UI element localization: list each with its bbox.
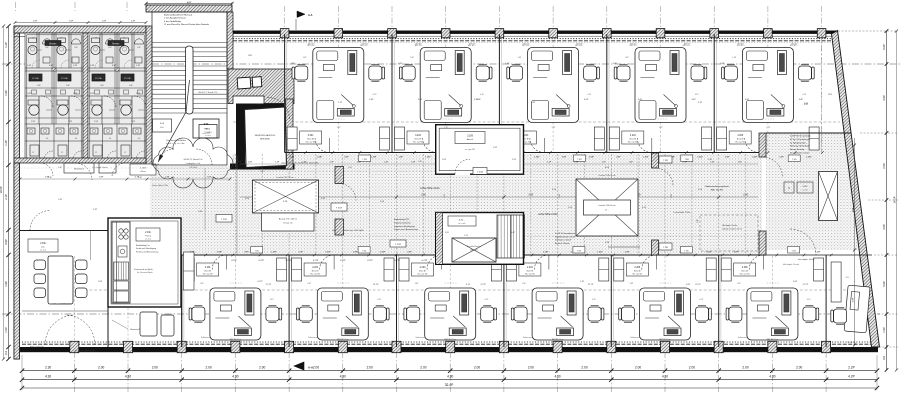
svg-text:1.2P: 1.2P	[4, 42, 8, 48]
svg-text:Deckgl. Üb.: Deckgl. Üb.	[283, 222, 293, 225]
svg-text:1.5P: 1.5P	[207, 177, 212, 179]
right dimension column outer	[896, 31, 898, 370]
svg-text:1.6P: 1.6P	[574, 162, 579, 164]
office U5 divider wall	[713, 34, 715, 153]
core lower crossed box	[452, 238, 496, 262]
revision cloud	[153, 138, 233, 188]
svg-text:1.6P: 1.6P	[90, 93, 95, 95]
WC group at x=25	[25, 33, 83, 160]
stair lower label boxes	[153, 119, 172, 132]
south facade piers	[70, 341, 79, 352]
WC lower cells	[25, 124, 83, 160]
office U4 chair left	[617, 66, 630, 80]
svg-text:4.30: 4.30	[447, 375, 453, 379]
svg-text:0.8P: 0.8P	[353, 252, 358, 254]
svg-text:2.2…: 2.2…	[846, 277, 851, 279]
svg-text:Bestück. Klemm.: Bestück. Klemm.	[555, 242, 570, 245]
office L5 desk island	[640, 288, 691, 340]
office L1 wardrobe left	[277, 258, 287, 281]
svg-text:3.202: 3.202	[415, 135, 421, 137]
svg-text:0.8P: 0.8P	[625, 252, 630, 254]
svg-text:1.9P: 1.9P	[33, 20, 38, 22]
lobby door arcs from WC	[75, 163, 92, 180]
window line south (dashed)	[22, 343, 874, 345]
svg-text:BRT 86 / D m: BRT 86 / D m	[230, 339, 242, 341]
WC fixtures (toilets)	[29, 38, 37, 43]
office U2 wardrobe	[395, 127, 405, 150]
svg-text:CPU: CPU	[248, 55, 253, 57]
svg-text:x,x m2: x,x m2	[802, 190, 807, 192]
office U5 chair right	[798, 66, 811, 80]
svg-text:4.30: 4.30	[769, 375, 775, 379]
office L4 wardrobe left	[599, 258, 609, 281]
svg-text:1.34P: 1.34P	[706, 252, 712, 254]
svg-text:BRT BT/ .: BRT BT/ .	[630, 44, 638, 46]
svg-text:0.8P: 0.8P	[344, 156, 349, 158]
svg-text:1.6P: 1.6P	[27, 93, 32, 95]
svg-text:1.4P: 1.4P	[27, 65, 32, 67]
svg-text:2.01P: 2.01P	[802, 186, 808, 188]
corridor floor hatch (main west)	[232, 154, 436, 255]
svg-text:Bodenmarkierungsband: Bodenmarkierungsband	[705, 185, 729, 188]
office U4 door swing	[637, 138, 652, 153]
WC lower cells	[88, 124, 146, 160]
svg-text:1.34P: 1.34P	[380, 252, 386, 254]
office L6 wardrobe	[721, 258, 731, 281]
svg-text:xx, nym M2: xx, nym M2	[465, 149, 475, 151]
svg-text:Wa, nyz M2: Wa, nyz M2	[735, 141, 745, 143]
svg-text:0.6: 0.6	[138, 138, 140, 140]
office L4 chair left	[514, 307, 527, 321]
svg-text:Wa, nyz M2: Wa, nyz M2	[418, 273, 428, 275]
office U4 wardrobe	[609, 127, 619, 150]
svg-text:2.205: 2.205	[634, 267, 640, 269]
WC mid hatch wall	[52, 68, 56, 71]
svg-text:2.00: 2.00	[152, 366, 158, 370]
svg-text:2.00: 2.00	[205, 366, 211, 370]
svg-text:1.4P: 1.4P	[275, 162, 280, 164]
svg-text:Fa. Keramid Spüle: Fa. Keramid Spüle	[137, 271, 153, 274]
svg-text:1.34P: 1.34P	[216, 252, 222, 254]
svg-text:F 1.3k: F 1.3k	[124, 78, 131, 80]
svg-text:Landeplatz n. Lift: Landeplatz n. Lift	[186, 162, 201, 165]
office L5 chair left	[622, 307, 635, 321]
office U3 wardrobe left	[594, 127, 604, 150]
office L6 chair left	[729, 307, 742, 321]
wall: stair block east	[227, 12, 233, 69]
svg-text:4.30: 4.30	[340, 375, 346, 379]
svg-text:Büro Bt: Büro Bt	[415, 137, 422, 140]
corridor north wall	[285, 152, 436, 154]
meeting room door arcs	[45, 315, 75, 345]
svg-text:2.00: 2.00	[689, 366, 695, 370]
skylight box west lower	[262, 213, 315, 231]
svg-text:Büro Bt: Büro Bt	[737, 137, 744, 140]
office L4 room label	[519, 263, 541, 276]
office L2 door swing	[320, 255, 335, 270]
wall: stair block north (raised)	[146, 5, 232, 12]
svg-text:Lichte Höhe 3.10m: Lichte Höhe 3.10m	[420, 187, 439, 190]
corridor floor hatch (at core)	[436, 174, 524, 212]
svg-text:4.30: 4.30	[45, 375, 51, 379]
svg-text:1.6P: 1.6P	[738, 162, 743, 164]
svg-text:1.4P: 1.4P	[547, 162, 552, 164]
svg-text:1.4P: 1.4P	[4, 140, 8, 146]
corridor south wall	[182, 254, 436, 256]
svg-text:21.7P: 21.7P	[373, 284, 379, 286]
office L3 chair right	[481, 307, 494, 321]
svg-text:3.204: 3.204	[630, 135, 636, 137]
svg-text:Auszug 170 x 140 cm: Auszug 170 x 140 cm	[279, 218, 298, 221]
east room door swing	[790, 229, 816, 255]
svg-text:1.5P: 1.5P	[31, 121, 36, 123]
elevator label box	[199, 125, 217, 139]
svg-text:xx, m2: xx, m2	[145, 239, 151, 241]
office U2 chair left	[402, 66, 415, 80]
svg-text:3.6P: 3.6P	[369, 99, 374, 101]
svg-text:Aufzucht: Aufzucht	[470, 249, 478, 252]
svg-text:Büro Bt: Büro Bt	[204, 269, 211, 272]
corridor horizontal dashed lines	[232, 170, 435, 172]
svg-text:1.6P: 1.6P	[248, 162, 253, 164]
svg-text:5.0P: 5.0P	[852, 297, 854, 302]
svg-text:2.00: 2.00	[98, 366, 104, 370]
stair treads	[152, 43, 227, 114]
svg-text:5.0P: 5.0P	[882, 44, 886, 50]
svg-text:1.34P: 1.34P	[597, 252, 603, 254]
WC door arcs upper	[95, 60, 103, 68]
svg-text:1.6P: 1.6P	[629, 162, 634, 164]
svg-text:11 mm Fliess/Fa. Massivl Fusbo: 11 mm Fliess/Fa. Massivl Fusbo Here Natu…	[164, 23, 210, 26]
pantry label	[136, 228, 160, 241]
section marker A-A top	[297, 11, 305, 18]
svg-text:BRT 86 / D m: BRT 86 / D m	[552, 339, 564, 341]
office U5 room label	[729, 131, 751, 144]
svg-text:Sollwertmel: Sollwertmel	[523, 336, 533, 339]
svg-text:1.5P: 1.5P	[512, 159, 517, 161]
office L3 divider wall	[396, 255, 398, 347]
svg-text:1.5P: 1.5P	[882, 327, 886, 333]
svg-text:berg. Montierf. entspr.: berg. Montierf. entspr.	[790, 152, 810, 155]
corridor door wall at x=338	[335, 167, 344, 184]
skylight box east (crossed)	[576, 179, 638, 236]
svg-text:1.4P: 1.4P	[58, 199, 63, 201]
kitchen stove circles	[119, 229, 123, 233]
office L2 wardrobe left	[384, 258, 394, 281]
svg-text:1.1P: 1.1P	[580, 281, 585, 283]
svg-text:0.8P: 0.8P	[616, 156, 621, 158]
office L3 room label	[412, 263, 434, 276]
svg-text:0.8P: 0.8P	[725, 156, 730, 158]
svg-text:2.00: 2.00	[528, 366, 534, 370]
svg-text:Wa, nyz M2: Wa, nyz M2	[413, 141, 423, 143]
core lower stair treads	[498, 215, 523, 258]
svg-text:1.4P: 1.4P	[710, 162, 715, 164]
svg-text:Wa, nyz M2: Wa, nyz M2	[628, 141, 638, 143]
staircase outline	[152, 12, 227, 165]
svg-text:BRT BT/ .: BRT BT/ .	[362, 44, 370, 46]
svg-text:Sollwertmel: Sollwertmel	[416, 336, 426, 339]
svg-text:Wa, nyz M2: Wa, nyz M2	[740, 273, 750, 275]
svg-text:1.2: 1.2	[95, 152, 97, 154]
svg-text:4.30: 4.30	[125, 375, 131, 379]
svg-text:0.8P: 0.8P	[4, 239, 8, 245]
svg-text:0.77P: 0.77P	[257, 281, 263, 283]
office U4 desk island	[635, 48, 686, 123]
core lower room (stair/shaft)	[436, 213, 524, 265]
svg-text:0.8P: 0.8P	[399, 156, 404, 158]
svg-text:2.202: 2.202	[312, 267, 318, 269]
svg-text:1.34P: 1.34P	[806, 156, 812, 158]
kitchen sink	[118, 246, 127, 257]
lobby dim chain	[20, 178, 230, 180]
dimension row 3 (total)	[22, 387, 877, 389]
office U3 chair left	[510, 66, 523, 80]
svg-text:2.00: 2.00	[635, 366, 641, 370]
office U5 chair left	[724, 66, 737, 80]
section marker A-A bottom	[294, 362, 304, 370]
svg-text:1.5P: 1.5P	[102, 20, 107, 22]
svg-text:0.8: 0.8	[882, 356, 886, 360]
office L6 divider wall	[718, 255, 720, 347]
svg-text:Lärche Höhe 2.20e: Lärche Höhe 2.20e	[152, 184, 168, 187]
svg-text:T 3/0: T 3/0	[577, 250, 581, 252]
svg-text:2.00: 2.00	[796, 366, 802, 370]
WC mid fixtures	[92, 105, 102, 115]
svg-text:1.6P: 1.6P	[411, 162, 416, 164]
svg-text:2.2P: 2.2P	[848, 366, 855, 370]
svg-text:Alt abgeh. Decke,: Alt abgeh. Decke,	[723, 224, 738, 227]
office L6 room label	[734, 263, 756, 276]
WC extra tiny marks	[32, 90, 37, 94]
svg-text:1.9P: 1.9P	[45, 177, 50, 179]
svg-text:1.5P: 1.5P	[442, 159, 447, 161]
svg-text:BT flg OG-Verteilersch.: BT flg OG-Verteilersch.	[790, 138, 811, 141]
svg-text:2.00: 2.00	[743, 194, 748, 197]
meeting chairs right	[76, 260, 88, 270]
office U3 door swing	[530, 138, 545, 153]
svg-text:1.3: 1.3	[32, 38, 34, 40]
svg-text:0.8P: 0.8P	[779, 156, 784, 158]
office U2 room label	[407, 131, 429, 144]
svg-text:Wa, nyz M2: Wa, nyz M2	[203, 273, 213, 275]
svg-text:1.6P: 1.6P	[838, 74, 843, 76]
office U2 door swing	[423, 138, 438, 153]
svg-text:0.77P: 0.77P	[286, 260, 292, 262]
svg-text:BRT 86 / D m: BRT 86 / D m	[659, 339, 671, 341]
office U3 divider wall	[498, 34, 500, 153]
svg-text:1.4P: 1.4P	[136, 65, 141, 67]
svg-text:Sollwertmel: Sollwertmel	[201, 336, 211, 339]
svg-text:T 3/0: T 3/0	[362, 250, 366, 252]
svg-text:Fortsetzend Decke: Fortsetzend Decke	[394, 221, 412, 224]
office L2 wardrobe	[292, 258, 302, 281]
svg-text:LA/1.02/T2.7 BRT.TB (7) m: LA/1.02/T2.7 BRT.TB (7) m	[74, 350, 97, 353]
door swing at elevator	[268, 98, 290, 120]
svg-text:2.00: 2.00	[420, 366, 426, 370]
svg-text:1.6P: 1.6P	[290, 63, 295, 65]
svg-text:1.6P: 1.6P	[98, 281, 103, 283]
svg-text:1.2: 1.2	[61, 152, 63, 154]
svg-text:BRT BT/ .: BRT BT/ .	[308, 44, 316, 46]
WC header label	[45, 41, 61, 46]
svg-text:21.7P: 21.7P	[803, 284, 809, 286]
svg-text:4.2P: 4.2P	[848, 375, 855, 379]
svg-text:1.6P: 1.6P	[357, 162, 362, 164]
wall: west exterior	[14, 26, 20, 359]
svg-text:1.9P: 1.9P	[4, 90, 8, 96]
svg-text:Fortsetzen Bestätigung: Fortsetzen Bestätigung	[394, 225, 415, 228]
office L5 wardrobe left	[706, 258, 716, 281]
svg-text:2.00: 2.00	[313, 366, 319, 370]
office U1 chair left	[295, 66, 308, 80]
office L2 chair right	[373, 307, 386, 321]
svg-text:1.5P: 1.5P	[68, 121, 73, 123]
svg-text:2.00: 2.00	[367, 366, 373, 370]
pantry room	[181, 255, 183, 347]
wall: south exterior (main)	[20, 347, 878, 352]
svg-text:T 3/R: T 3/R	[685, 159, 690, 161]
svg-text:BRT 86 / D m: BRT 86 / D m	[445, 339, 457, 341]
svg-text:1.2P: 1.2P	[131, 20, 136, 22]
svg-text:1.34P: 1.34P	[371, 156, 377, 158]
svg-text:4 mm Stab/Belag: 4 mm Stab/Belag	[164, 20, 182, 23]
office L2 divider wall	[288, 255, 290, 347]
office L3 chair left	[407, 307, 420, 321]
office U5 door swing	[745, 138, 760, 153]
svg-text:3.201: 3.201	[308, 135, 314, 137]
svg-text:xx, m2: xx, m2	[40, 250, 46, 252]
wall: WC block south	[14, 158, 146, 163]
office U3 desk island	[528, 48, 579, 123]
svg-text:1.6P: 1.6P	[793, 281, 798, 283]
WC group at x=88	[88, 33, 146, 160]
svg-text:T 3/R: T 3/R	[663, 247, 668, 249]
svg-text:Leuchte 210x 90 cm: Leuchte 210x 90 cm	[598, 204, 615, 207]
svg-text:21.7P: 21.7P	[695, 284, 701, 286]
svg-text:Sollwertmel: Sollwertmel	[738, 336, 748, 339]
elevator window openings	[237, 76, 262, 89]
svg-text:1.34P: 1.34P	[643, 156, 649, 158]
svg-text:2.201: 2.201	[205, 267, 211, 269]
WC double wall lines	[88, 33, 146, 158]
WC extra tiny marks	[95, 90, 100, 94]
svg-text:RAL 750 RG: RAL 750 RG	[711, 188, 724, 191]
office L6 chair right	[803, 307, 816, 321]
svg-text:32.4P: 32.4P	[445, 383, 454, 387]
svg-text:3.209: 3.209	[467, 136, 473, 138]
svg-text:Lab.: Lab.	[41, 247, 45, 249]
office L3 door swing	[427, 255, 442, 270]
svg-text:Büro Bt: Büro Bt	[741, 269, 748, 272]
WC fixtures (toilets)	[92, 38, 100, 43]
north facade piers	[280, 29, 289, 38]
wall: north exterior (main)	[232, 31, 837, 34]
corridor axis verticals	[235, 154, 745, 254]
meeting table	[48, 256, 73, 304]
svg-text:3.205: 3.205	[737, 135, 743, 137]
svg-text:F 1.3k: F 1.3k	[95, 78, 102, 80]
svg-text:T 3.1R: T 3.1R	[395, 244, 402, 246]
svg-text:0.4: 0.4	[4, 351, 8, 355]
svg-text:T 3.1R: T 3.1R	[477, 171, 484, 173]
svg-text:17.2cm 0x0P/8/0x0/4.0: 17.2cm 0x0P/8/0x0/4.0	[52, 304, 71, 306]
svg-text:2.00: 2.00	[348, 167, 352, 169]
svg-text:1.5P: 1.5P	[69, 20, 74, 22]
svg-text:1.2: 1.2	[124, 152, 126, 154]
svg-text:BRT BT/ .: BRT BT/ .	[469, 44, 477, 46]
svg-text:2.206: 2.206	[742, 267, 748, 269]
office U3 chair right	[584, 66, 597, 80]
office L5 room label	[626, 263, 648, 276]
svg-text:Wartung, Klemmleiste: Wartung, Klemmleiste	[790, 145, 810, 148]
svg-text:xx, n m2: xx, n m2	[458, 223, 465, 225]
dashed vent rect	[700, 215, 758, 251]
corridor mid dimension chain	[240, 196, 758, 198]
svg-text:Bodenbelag PVC: Bodenbelag PVC	[394, 219, 410, 221]
soffit dashed line upper offices	[233, 121, 840, 123]
svg-text:BRT BT/ .: BRT BT/ .	[684, 44, 692, 46]
office L1 desk island	[210, 288, 261, 340]
svg-text:T 3/R: T 3/R	[792, 159, 797, 161]
WC sinks	[90, 128, 98, 134]
svg-text:Sollwertmel: Sollwertmel	[308, 336, 318, 339]
meeting room interior line	[90, 231, 92, 261]
svg-text:1.8P: 1.8P	[99, 177, 104, 179]
svg-text:0.8P: 0.8P	[112, 65, 117, 67]
svg-text:1.34P: 1.34P	[752, 156, 758, 158]
svg-text:Wa, nyz M2: Wa, nyz M2	[310, 273, 320, 275]
svg-text:Lüftung ca. 4-fach: Lüftung ca. 4-fach	[555, 239, 571, 242]
office L2 desk island	[317, 288, 368, 340]
svg-text:Wa, nyz M2: Wa, nyz M2	[306, 141, 316, 143]
office L6 desk island	[747, 288, 798, 340]
meeting room walls	[20, 230, 109, 232]
right dim connector lines	[838, 30, 898, 32]
svg-text:1.3: 1.3	[60, 38, 62, 40]
svg-text:T 3.1R: T 3.1R	[336, 208, 343, 210]
svg-text:1.6P: 1.6P	[398, 63, 403, 65]
svg-text:GS-46 T2, Brand 3 G: GS-46 T2, Brand 3 G	[184, 159, 203, 161]
svg-text:1.34P: 1.34P	[697, 156, 703, 158]
stair central stringer	[186, 46, 194, 114]
upper office last divider axis	[821, 34, 823, 153]
svg-text:1.0P: 1.0P	[4, 327, 8, 333]
svg-text:Detail s. Zg. nn, t,Am: Detail s. Zg. nn, t,Am	[166, 142, 185, 145]
east room small boxes	[784, 182, 794, 193]
svg-text:BRT BT/ .: BRT BT/ .	[576, 44, 584, 46]
svg-text:T 3.1R: T 3.1R	[221, 219, 228, 221]
svg-text:Büro Bt: Büro Bt	[634, 269, 641, 272]
svg-text:GS-46 T2, Brand 3 G...: GS-46 T2, Brand 3 G...	[198, 92, 219, 94]
svg-text:Lüftung erhaltens 10 cm: Lüftung erhaltens 10 cm	[722, 227, 743, 230]
svg-text:0.7P: 0.7P	[135, 177, 140, 179]
svg-text:1.6P: 1.6P	[683, 162, 688, 164]
svg-text:2.203: 2.203	[420, 267, 426, 269]
svg-text:1.4P: 1.4P	[330, 162, 335, 164]
office U4 chair right	[691, 66, 704, 80]
technical room floor hatch (east end)	[766, 133, 866, 250]
skylight box west (crossed)	[253, 180, 319, 213]
dimension extension verticals bottom	[21, 355, 23, 390]
svg-text:2.3P: 2.3P	[93, 209, 98, 211]
svg-text:Leuchte 210 / 90 cm: Leuchte 210 / 90 cm	[276, 176, 294, 179]
svg-text:Farbe nach Bestätigung: Farbe nach Bestätigung	[136, 247, 156, 250]
svg-text:0.77P: 0.77P	[231, 260, 237, 262]
window line north (dashed)	[233, 40, 834, 42]
svg-text:Kabelkanal opt. Decke: Kabelkanal opt. Decke	[555, 235, 576, 238]
office L4 desk island	[532, 288, 583, 340]
